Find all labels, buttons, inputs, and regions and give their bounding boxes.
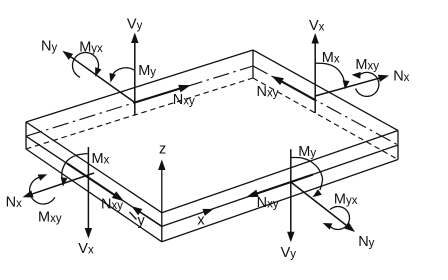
svg-text:y: y: [138, 213, 146, 229]
svg-text:z: z: [159, 141, 166, 157]
svg-text:x: x: [197, 213, 205, 229]
